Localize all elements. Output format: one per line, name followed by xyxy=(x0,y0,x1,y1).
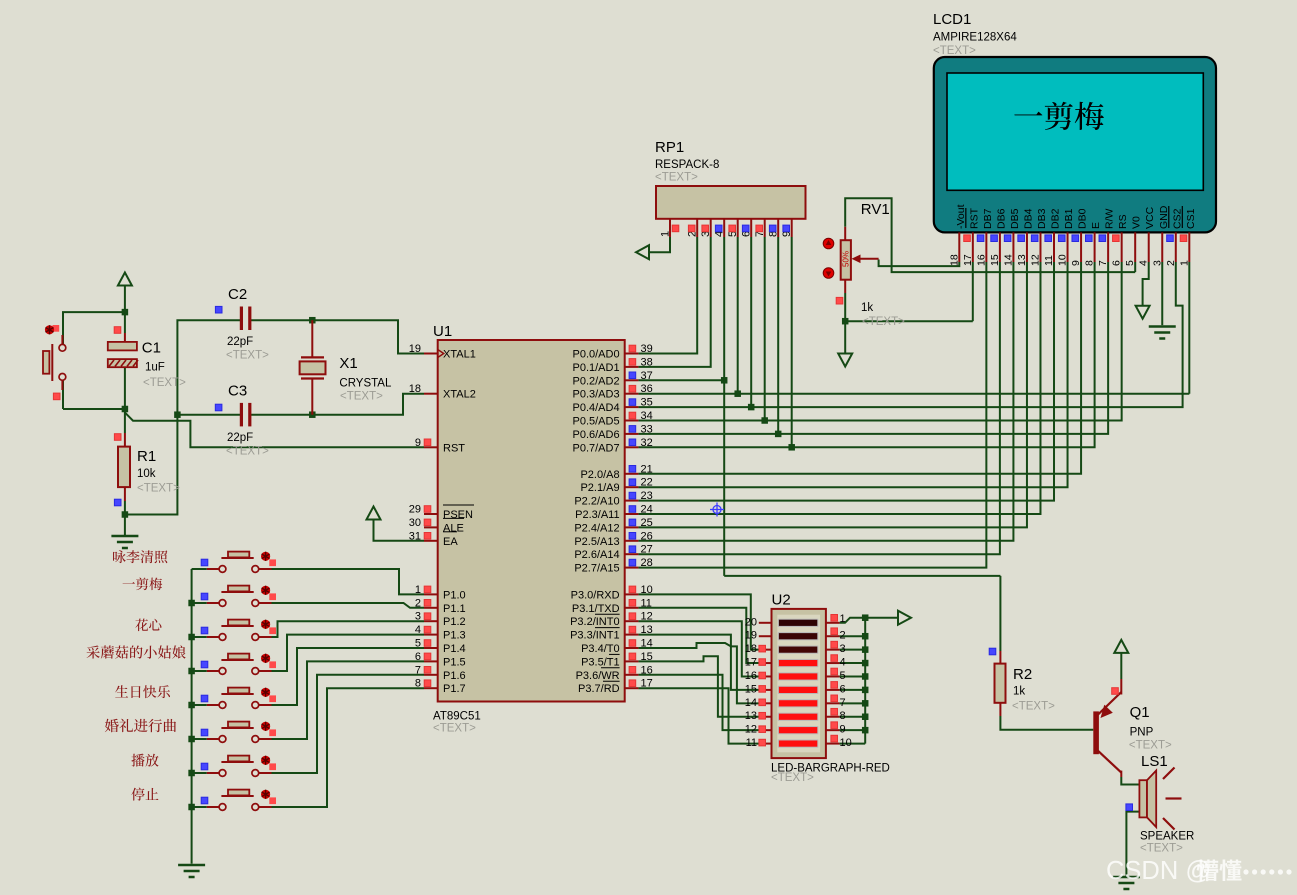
wire RV1 bottom to LCD RST xyxy=(844,293,846,321)
svg-text:35: 35 xyxy=(641,397,653,409)
svg-text:8: 8 xyxy=(840,710,846,722)
capacitor C2 plates xyxy=(240,307,243,331)
svg-text:P0.0/AD0: P0.0/AD0 xyxy=(573,349,620,361)
svg-text:P3.6/WR: P3.6/WR xyxy=(576,670,620,682)
svg-text:Q1: Q1 xyxy=(1130,704,1150,721)
button 7 markers xyxy=(269,763,276,770)
svg-text:XTAL2: XTAL2 xyxy=(443,389,476,401)
label hunli jinxingqu xyxy=(105,719,119,732)
svg-text:P1.3: P1.3 xyxy=(443,630,466,642)
svg-text:1k: 1k xyxy=(861,302,873,314)
junction reset node xyxy=(122,406,128,413)
wire C3 left xyxy=(177,414,240,416)
svg-text:P2.3/A11: P2.3/A11 xyxy=(575,509,619,521)
junction RV1 bottom xyxy=(842,318,849,325)
push button 3 xyxy=(207,636,219,638)
svg-text:14: 14 xyxy=(641,638,653,650)
svg-text:3: 3 xyxy=(1151,260,1163,266)
junction U2 rail top xyxy=(862,614,869,621)
U1 logic squares xyxy=(424,439,431,446)
resistor R1 body xyxy=(124,433,126,447)
wire start button top xyxy=(63,312,125,345)
svg-text:10: 10 xyxy=(641,584,653,596)
svg-text:23: 23 xyxy=(641,490,653,502)
wire XTAL1 to C2/X1 xyxy=(312,320,424,353)
svg-text:CS1: CS1 xyxy=(1185,208,1197,229)
svg-text:6: 6 xyxy=(1111,260,1123,266)
power arrow EA xyxy=(367,507,381,520)
svg-text:5: 5 xyxy=(840,670,846,682)
push button 5 xyxy=(207,704,219,706)
svg-text:C3: C3 xyxy=(228,383,247,400)
svg-text:30: 30 xyxy=(409,517,421,529)
svg-text:37: 37 xyxy=(641,370,653,382)
svg-text:12: 12 xyxy=(745,724,757,736)
svg-text:U2: U2 xyxy=(772,591,791,608)
svg-text:E: E xyxy=(1090,222,1102,229)
svg-text:1uF: 1uF xyxy=(145,362,165,374)
svg-text:XTAL1: XTAL1 xyxy=(443,349,476,361)
svg-text:7: 7 xyxy=(840,697,846,709)
svg-text:15: 15 xyxy=(745,683,757,695)
svg-text:6: 6 xyxy=(415,651,421,663)
svg-text:<TEXT>: <TEXT> xyxy=(1140,843,1183,855)
R2 logic square xyxy=(989,648,996,655)
button 5 markers xyxy=(269,695,276,702)
svg-text:5: 5 xyxy=(1124,260,1136,266)
LCD logic squares xyxy=(964,235,971,242)
svg-text:P3.4/T0: P3.4/T0 xyxy=(581,643,620,655)
power arrow U2 xyxy=(898,611,911,625)
Q1 logic square xyxy=(1112,688,1119,695)
svg-text:9: 9 xyxy=(1070,260,1082,266)
svg-text:4: 4 xyxy=(1138,260,1150,266)
svg-text:<TEXT>: <TEXT> xyxy=(1012,701,1055,713)
wire P3.4 to U2 pin14 staple route xyxy=(638,643,758,703)
svg-text:DB7: DB7 xyxy=(982,208,994,229)
svg-text:<TEXT>: <TEXT> xyxy=(933,45,976,57)
push button 6 xyxy=(207,738,219,740)
svg-text:36: 36 xyxy=(641,383,653,395)
power arrow top-left xyxy=(118,273,132,286)
svg-text:16: 16 xyxy=(975,254,987,266)
svg-text:RST: RST xyxy=(968,207,980,229)
svg-text:32: 32 xyxy=(641,437,653,449)
svg-text:P0.2/AD2: P0.2/AD2 xyxy=(573,375,620,387)
svg-text:29: 29 xyxy=(409,504,421,516)
svg-text:P2.4/A12: P2.4/A12 xyxy=(574,522,619,534)
wire P0.4 to LCD CS2 xyxy=(638,262,1182,407)
svg-text:<TEXT>: <TEXT> xyxy=(862,316,905,328)
RV1 wiper arrow xyxy=(858,258,879,260)
svg-text:R/W: R/W xyxy=(1104,209,1116,230)
svg-text:RS: RS xyxy=(1117,214,1129,229)
transistor Q1 xyxy=(1093,711,1099,754)
label bofang xyxy=(131,754,144,767)
wire P0.3 to LCD CS1 xyxy=(638,393,1189,395)
svg-text:<TEXT>: <TEXT> xyxy=(137,483,180,495)
svg-text:<TEXT>: <TEXT> xyxy=(655,172,698,184)
label hua xin xyxy=(135,619,148,631)
svg-text:P2.5/A13: P2.5/A13 xyxy=(574,536,619,548)
svg-text:SPEAKER: SPEAKER xyxy=(1140,831,1194,843)
button wires to P1 pins xyxy=(272,569,425,594)
svg-text:C1: C1 xyxy=(142,340,161,357)
svg-text:P3.2/INT0: P3.2/INT0 xyxy=(570,616,620,628)
svg-text:PNP: PNP xyxy=(1130,727,1154,739)
svg-text:13: 13 xyxy=(745,710,757,722)
svg-text:PSEN: PSEN xyxy=(443,509,473,521)
svg-text:15: 15 xyxy=(989,254,1001,266)
buttons left stubs xyxy=(192,568,207,570)
svg-text:28: 28 xyxy=(641,557,653,569)
svg-text:R2: R2 xyxy=(1013,666,1032,683)
svg-text:DB3: DB3 xyxy=(1036,208,1048,229)
U1 pin stubs left xyxy=(424,353,438,355)
button 3 markers xyxy=(269,627,276,634)
resistor R2 body xyxy=(995,664,1006,703)
label tingzhi xyxy=(131,788,144,801)
wire XTAL2 to C3/X1 xyxy=(251,394,424,415)
svg-text:12: 12 xyxy=(1029,254,1041,266)
svg-text:<TEXT>: <TEXT> xyxy=(433,723,476,735)
svg-text:38: 38 xyxy=(641,356,653,368)
wire RP1 pin1 to power arrow xyxy=(648,237,670,252)
svg-text:13: 13 xyxy=(641,624,653,636)
button 8 markers xyxy=(269,797,276,804)
svg-text:DB2: DB2 xyxy=(1050,208,1062,229)
svg-text:<TEXT>: <TEXT> xyxy=(226,446,269,458)
svg-text:10k: 10k xyxy=(137,468,156,480)
svg-text:X1: X1 xyxy=(339,355,357,372)
svg-text:CSDN @: CSDN @ xyxy=(1106,857,1211,885)
svg-text:P2.1/A9: P2.1/A9 xyxy=(580,482,619,494)
svg-text:DB6: DB6 xyxy=(995,208,1007,229)
wire P3.5 to U2 pin13 staple route xyxy=(638,656,758,717)
wire P0.0 to RP1 pin2 xyxy=(638,237,697,354)
svg-text:2: 2 xyxy=(1165,260,1177,266)
svg-text:2: 2 xyxy=(415,597,421,609)
wire P3.6 to U2 pin12 xyxy=(638,675,758,730)
push button 4 xyxy=(207,670,219,672)
svg-text:P3.3/INT1: P3.3/INT1 xyxy=(570,630,620,642)
svg-text:22pF: 22pF xyxy=(227,336,253,348)
svg-text:27: 27 xyxy=(641,544,653,556)
start button vertical xyxy=(61,335,63,345)
svg-text:31: 31 xyxy=(409,530,421,542)
svg-text:<TEXT>: <TEXT> xyxy=(340,391,383,403)
junction R1 bottom xyxy=(122,511,128,518)
svg-text:18: 18 xyxy=(745,643,757,655)
svg-text:P0.7/AD7: P0.7/AD7 xyxy=(573,442,620,454)
wire P0.1 to RP1 pin3 xyxy=(638,237,710,367)
svg-text:ALE: ALE xyxy=(443,522,464,534)
svg-text:<TEXT>: <TEXT> xyxy=(1129,740,1172,752)
buttons ground rail xyxy=(191,569,193,864)
push button 7 xyxy=(207,772,219,774)
svg-text:P0.4/AD4: P0.4/AD4 xyxy=(573,402,620,414)
push button 1 xyxy=(207,568,219,570)
label yong li qingzhao xyxy=(113,550,126,563)
wire Q1 collector to LS1 xyxy=(1121,777,1139,785)
LCD pin stubs xyxy=(1188,232,1190,262)
ground LS1 xyxy=(1113,876,1140,879)
svg-text:DB0: DB0 xyxy=(1077,208,1089,229)
junction X1 top xyxy=(309,317,316,324)
junction P0.4/RP1.6 xyxy=(748,404,755,411)
svg-text:10: 10 xyxy=(840,737,852,749)
svg-text:8: 8 xyxy=(1084,260,1096,266)
svg-text:P0.1/AD1: P0.1/AD1 xyxy=(573,362,620,374)
power arrow Q1 xyxy=(1114,640,1128,653)
svg-text:22pF: 22pF xyxy=(227,432,253,444)
svg-text:17: 17 xyxy=(962,254,974,266)
svg-text:12: 12 xyxy=(641,611,653,623)
LCD1 screen text yi-jian-mei xyxy=(1014,112,1042,116)
junction X1 bottom xyxy=(309,411,316,418)
svg-text:1: 1 xyxy=(1178,260,1190,266)
svg-text:P3.1/TXD: P3.1/TXD xyxy=(572,603,620,615)
RV1 logic square xyxy=(836,297,843,304)
junction C2C3 gnd node xyxy=(174,411,181,418)
svg-text:4: 4 xyxy=(415,624,421,636)
svg-text:8: 8 xyxy=(415,678,421,690)
svg-text:RST: RST xyxy=(443,442,465,454)
junction P0.5/RP1.7 xyxy=(761,417,768,424)
svg-text:P3.5/T1: P3.5/T1 xyxy=(581,656,620,668)
svg-text:DB1: DB1 xyxy=(1063,208,1075,229)
svg-text:P2.6/A14: P2.6/A14 xyxy=(574,549,619,561)
svg-text:2: 2 xyxy=(840,630,846,642)
svg-text:1: 1 xyxy=(660,231,672,237)
svg-text:21: 21 xyxy=(641,463,653,475)
RV1 adjust knobs xyxy=(823,238,834,249)
R1 logic squares xyxy=(114,434,121,441)
pot RV1 body xyxy=(844,227,846,240)
wire RV1 top to LCD V0 xyxy=(845,198,1135,272)
svg-text:16: 16 xyxy=(745,670,757,682)
wire Q1 emitter to power xyxy=(1120,653,1122,679)
LS1 logic square xyxy=(1126,804,1133,811)
ground LCD xyxy=(1149,325,1176,328)
svg-text:9: 9 xyxy=(840,724,846,736)
svg-text:39: 39 xyxy=(641,343,653,355)
CSDN watermark xyxy=(1106,857,1211,885)
button 4 markers xyxy=(269,661,276,668)
svg-text:P1.1: P1.1 xyxy=(443,603,466,615)
wire LCD GND pin3 xyxy=(1161,262,1163,325)
capacitor C1 bottom plate hatched xyxy=(108,359,137,367)
ground R1 xyxy=(111,535,138,538)
wire P0.7 to LCD E xyxy=(638,262,1094,447)
wire start button bottom xyxy=(62,380,64,409)
wire P0.5 to LCD RS xyxy=(638,262,1121,421)
svg-text:V0: V0 xyxy=(1131,216,1143,229)
svg-text:11: 11 xyxy=(641,597,652,609)
U1 pin stubs right xyxy=(625,353,639,355)
svg-text:U1: U1 xyxy=(433,323,452,340)
svg-text:11: 11 xyxy=(746,737,757,749)
svg-text:18: 18 xyxy=(409,383,421,395)
power-down arrow LCD VCC xyxy=(1136,306,1150,319)
svg-text:P1.6: P1.6 xyxy=(443,670,466,682)
svg-text:18: 18 xyxy=(948,254,960,266)
button 6 markers xyxy=(269,729,276,736)
power-down arrow RV1 xyxy=(838,354,852,367)
svg-text:RV1: RV1 xyxy=(861,201,890,218)
svg-text:4: 4 xyxy=(840,657,846,669)
origin marker xyxy=(710,503,724,517)
C1 logic square xyxy=(114,327,121,334)
crystal X1 xyxy=(300,361,326,374)
svg-text:5: 5 xyxy=(415,638,421,650)
speaker LS1 xyxy=(1139,780,1147,817)
svg-text:22: 22 xyxy=(641,477,653,489)
LCD1 screen xyxy=(947,73,1203,190)
wire RV1 bottom to gnd arrow xyxy=(844,321,846,353)
U2 logic squares xyxy=(831,615,838,622)
wire RST net xyxy=(125,413,424,448)
svg-text:R1: R1 xyxy=(137,448,156,465)
svg-text:14: 14 xyxy=(745,697,757,709)
svg-text:25: 25 xyxy=(641,517,653,529)
C3 logic square xyxy=(215,404,222,411)
start button markers xyxy=(53,325,60,332)
svg-text:CRYSTAL: CRYSTAL xyxy=(339,378,392,390)
RP1 logic squares xyxy=(672,225,679,232)
svg-text:P0.6/AD6: P0.6/AD6 xyxy=(573,429,620,441)
svg-text:7: 7 xyxy=(415,664,421,676)
svg-text:P1.2: P1.2 xyxy=(443,616,466,628)
svg-text:19: 19 xyxy=(745,630,757,642)
svg-text:AT89C51: AT89C51 xyxy=(433,711,481,723)
junction P0.7/RP1.9 xyxy=(788,444,795,451)
svg-text:P0.5/AD5: P0.5/AD5 xyxy=(573,416,620,428)
svg-text:AMPIRE128X64: AMPIRE128X64 xyxy=(933,32,1017,44)
U1 clock chevron XTAL1 xyxy=(438,350,444,358)
svg-text:11: 11 xyxy=(1043,255,1055,266)
svg-text:6: 6 xyxy=(840,683,846,695)
junction P0.6/RP1.8 xyxy=(775,431,782,438)
wire LCD VCC pin4 to down arrow xyxy=(1143,262,1149,306)
svg-text:RP1: RP1 xyxy=(655,139,684,156)
svg-text:19: 19 xyxy=(409,343,421,355)
svg-text:24: 24 xyxy=(641,504,653,516)
U2 right rail xyxy=(864,618,866,744)
svg-text:<TEXT>: <TEXT> xyxy=(771,772,814,784)
wire C2 right xyxy=(251,319,313,321)
junction P0.2/RP1.4 xyxy=(721,377,728,384)
svg-text:1k: 1k xyxy=(1013,686,1025,698)
svg-text:50%: 50% xyxy=(842,251,851,267)
label yi jian mei xyxy=(123,582,135,584)
svg-text:VCC: VCC xyxy=(1144,206,1156,229)
LCD1 body xyxy=(934,57,1216,232)
svg-text:20: 20 xyxy=(745,616,757,628)
wire X1 pins xyxy=(311,320,313,358)
wires P2.0-P2.7 to LCD DB0-DB7 xyxy=(638,262,1081,474)
wire C1/R1/reset node xyxy=(63,408,125,410)
capacitor C3 plates xyxy=(240,403,243,427)
U2 pin stubs xyxy=(759,622,772,624)
svg-text:P1.0: P1.0 xyxy=(443,589,466,601)
power arrow RP1 xyxy=(636,245,649,259)
svg-text:GND: GND xyxy=(1158,205,1170,229)
wire P0.6 to LCD R/W xyxy=(638,262,1108,434)
svg-text:33: 33 xyxy=(641,423,653,435)
svg-text:3: 3 xyxy=(840,643,846,655)
svg-text:P1.7: P1.7 xyxy=(443,683,466,695)
wire C2 left to gnd rail xyxy=(125,320,242,514)
svg-text:DB5: DB5 xyxy=(1009,208,1021,229)
svg-text:EA: EA xyxy=(443,536,458,548)
svg-text:14: 14 xyxy=(1002,254,1014,266)
svg-text:C2: C2 xyxy=(228,286,247,303)
svg-text:34: 34 xyxy=(641,410,653,422)
push button 8 xyxy=(207,806,219,808)
svg-text:13: 13 xyxy=(1016,254,1028,266)
svg-text:CS2: CS2 xyxy=(1171,208,1183,229)
svg-text:DB4: DB4 xyxy=(1022,208,1034,229)
svg-text:3: 3 xyxy=(415,611,421,623)
junction P0.3/RP1.5 xyxy=(734,390,741,397)
C2 logic square xyxy=(215,306,222,313)
RP1 pin stubs xyxy=(669,219,671,237)
button 2 markers xyxy=(269,593,276,600)
label cai mogu de xiao guniang xyxy=(87,645,100,658)
wire R1 bottom to gnd xyxy=(124,501,126,535)
wire EA to power xyxy=(374,520,425,541)
resistor pack RP1 body xyxy=(656,186,806,219)
svg-text:17: 17 xyxy=(641,678,653,690)
svg-text:17: 17 xyxy=(745,657,757,669)
bargraph U2 body xyxy=(772,609,826,758)
wire R2 bottom to Q1 base xyxy=(999,703,1001,716)
capacitor C1 top plate xyxy=(108,342,137,351)
ground buttons rail xyxy=(178,864,205,867)
svg-text:LCD1: LCD1 xyxy=(933,11,971,28)
wires P3.0-P3.3 to U2 pins 18-15 xyxy=(638,594,758,649)
wire LS1 bottom to gnd xyxy=(1126,812,1139,876)
svg-text:-Vout: -Vout xyxy=(955,204,967,229)
svg-text:P1.5: P1.5 xyxy=(443,656,466,668)
svg-text:16: 16 xyxy=(641,664,653,676)
U2 LED bars xyxy=(778,619,817,626)
LCD pin label overlines xyxy=(965,208,967,228)
svg-text:9: 9 xyxy=(415,437,421,449)
wire P3.7 to U2 pin11 xyxy=(638,688,758,743)
wire RV1 wiper to LCD -Vout xyxy=(879,260,960,267)
svg-text:10: 10 xyxy=(1057,254,1069,266)
wire P0.2 to RP1 pin4 and R2 xyxy=(638,379,724,381)
svg-text:P2.0/A8: P2.0/A8 xyxy=(580,469,619,481)
svg-text:1: 1 xyxy=(415,584,421,596)
chip U1 body xyxy=(438,340,625,702)
wire R2 top xyxy=(999,651,1001,664)
push button 2 xyxy=(207,602,219,604)
wires U2 pins 2-10 to rail xyxy=(839,635,865,637)
svg-text:RESPACK-8: RESPACK-8 xyxy=(655,159,719,171)
svg-text:P2.7/A15: P2.7/A15 xyxy=(574,563,619,575)
svg-text:P3.7/RD: P3.7/RD xyxy=(578,683,620,695)
wire C1 top to power xyxy=(124,333,126,342)
label shengri kuaile xyxy=(115,685,128,697)
svg-text:P0.3/AD3: P0.3/AD3 xyxy=(573,389,620,401)
svg-text:P1.4: P1.4 xyxy=(443,643,466,655)
svg-text:1: 1 xyxy=(840,613,846,625)
svg-text:P2.2/A10: P2.2/A10 xyxy=(574,496,619,508)
LS1 sound waves xyxy=(1163,768,1175,780)
